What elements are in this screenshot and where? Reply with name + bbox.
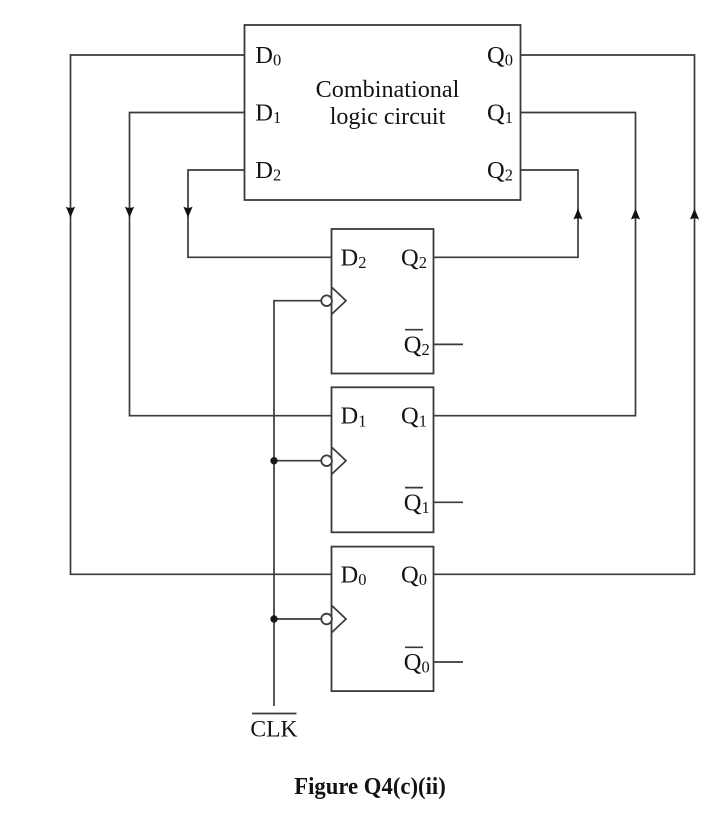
svg-text:Figure Q4(c)(ii): Figure Q4(c)(ii) — [294, 774, 446, 800]
svg-text:logic circuit: logic circuit — [330, 103, 446, 130]
svg-text:CLK: CLK — [250, 716, 297, 742]
svg-text:Combinational: Combinational — [316, 76, 460, 103]
